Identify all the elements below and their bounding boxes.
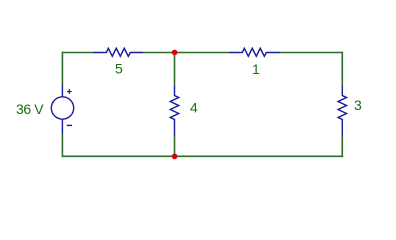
svg-text:4: 4 (190, 99, 198, 115)
voltage source V1 circle (51, 97, 73, 119)
svg-text:36 V: 36 V (16, 101, 44, 117)
resistor R1 (229, 48, 280, 56)
wire left column upper (61, 52, 63, 85)
voltage source V1 lead lower (61, 119, 63, 134)
svg-text:5: 5 (115, 61, 123, 77)
wire left column lower (61, 134, 63, 157)
wire top-middle segment (143, 52, 229, 54)
wire top-right segment (280, 52, 342, 54)
svg-text:3: 3 (354, 97, 362, 113)
node top junction (172, 50, 178, 56)
voltage source minus sign (67, 124, 72, 126)
wire middle column upper (174, 53, 176, 87)
wire bottom (62, 155, 344, 157)
wire right column lower (341, 135, 343, 158)
wire top-left segment (62, 52, 93, 54)
voltage source V1 lead upper (61, 85, 63, 97)
resistor R3 (338, 86, 346, 135)
node bottom junction (172, 154, 178, 160)
voltage source plus sign (67, 89, 72, 94)
resistor R5 (93, 48, 143, 56)
wire right column upper (341, 52, 343, 86)
svg-text:1: 1 (252, 61, 260, 77)
resistor R4 (170, 86, 178, 135)
wire middle column lower (174, 135, 176, 157)
